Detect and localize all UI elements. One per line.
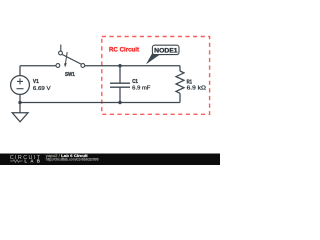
svg-text:C1: C1 bbox=[132, 79, 138, 85]
svg-text:http://circuitlab.com/c2v6b8d2: http://circuitlab.com/c2v6b8d2r696 bbox=[46, 158, 99, 162]
ground bbox=[19, 103, 21, 113]
annotation box: RC Circuit (red dashed rectangle) bbox=[102, 37, 210, 115]
svg-text:6.9 kΩ: 6.9 kΩ bbox=[187, 86, 207, 92]
node flag NODE1 box bbox=[152, 45, 179, 54]
svg-text:SW1: SW1 bbox=[65, 72, 75, 78]
wire: V1 bottom lead bbox=[19, 94, 21, 102]
voltage source V1 bbox=[11, 76, 30, 95]
node flag NODE1 pointer bbox=[146, 53, 160, 64]
wire: V1 top lead bbox=[19, 66, 21, 76]
node junction at C1 top bbox=[118, 64, 121, 67]
svg-text:RC Circuit: RC Circuit bbox=[109, 47, 140, 54]
svg-text:R1: R1 bbox=[187, 79, 193, 85]
svg-text:V1: V1 bbox=[33, 79, 40, 85]
svg-text:LAB: LAB bbox=[24, 159, 40, 164]
svg-text:NODE1: NODE1 bbox=[154, 48, 178, 55]
footer bar bbox=[0, 154, 220, 166]
node junction at C1 bottom bbox=[118, 101, 121, 104]
svg-text:6.69 V: 6.69 V bbox=[33, 86, 51, 92]
wire: top-left from V1 top to switch left terminal bbox=[20, 65, 56, 67]
svg-text:6.9 mF: 6.9 mF bbox=[132, 85, 151, 91]
footer logo symbols bbox=[10, 160, 23, 163]
node junction at V1 bottom bbox=[18, 101, 21, 104]
wire: bottom rail bbox=[20, 102, 180, 104]
switch SW1 bbox=[56, 64, 60, 68]
wire: switch right terminal to R1 corner bbox=[85, 65, 180, 67]
resistor R1 bbox=[179, 66, 181, 71]
capacitor C1 bbox=[119, 66, 121, 84]
